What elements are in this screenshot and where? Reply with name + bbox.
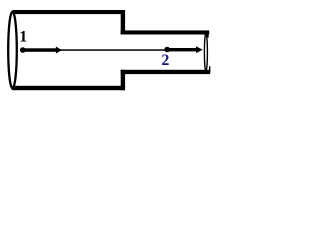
pipe exit bottom end tick (209, 66, 210, 72)
reservoir top wall (13, 10, 125, 14)
pipe bottom wall (121, 70, 211, 74)
svg-text:2: 2 (161, 52, 169, 69)
flow arrow shaft from point 2 (167, 48, 197, 51)
node point 2 (164, 47, 170, 53)
node point 1 (20, 47, 26, 53)
flow arrow head 2 (196, 46, 203, 53)
flow arrow shaft from point 1 (23, 48, 57, 52)
contraction step upper wall (121, 10, 125, 35)
centerline (thin) (59, 49, 167, 51)
svg-text:1: 1 (19, 29, 27, 46)
flow arrow head 1 (56, 47, 62, 54)
reservoir end ellipse (left tank opening) (8, 12, 17, 89)
reservoir bottom wall (12, 86, 125, 90)
pipe exit ellipse (right opening) (204, 33, 207, 71)
pipe exit top end tick (207, 34, 209, 38)
pipe top wall (121, 30, 210, 34)
contraction step lower wall (121, 70, 125, 90)
